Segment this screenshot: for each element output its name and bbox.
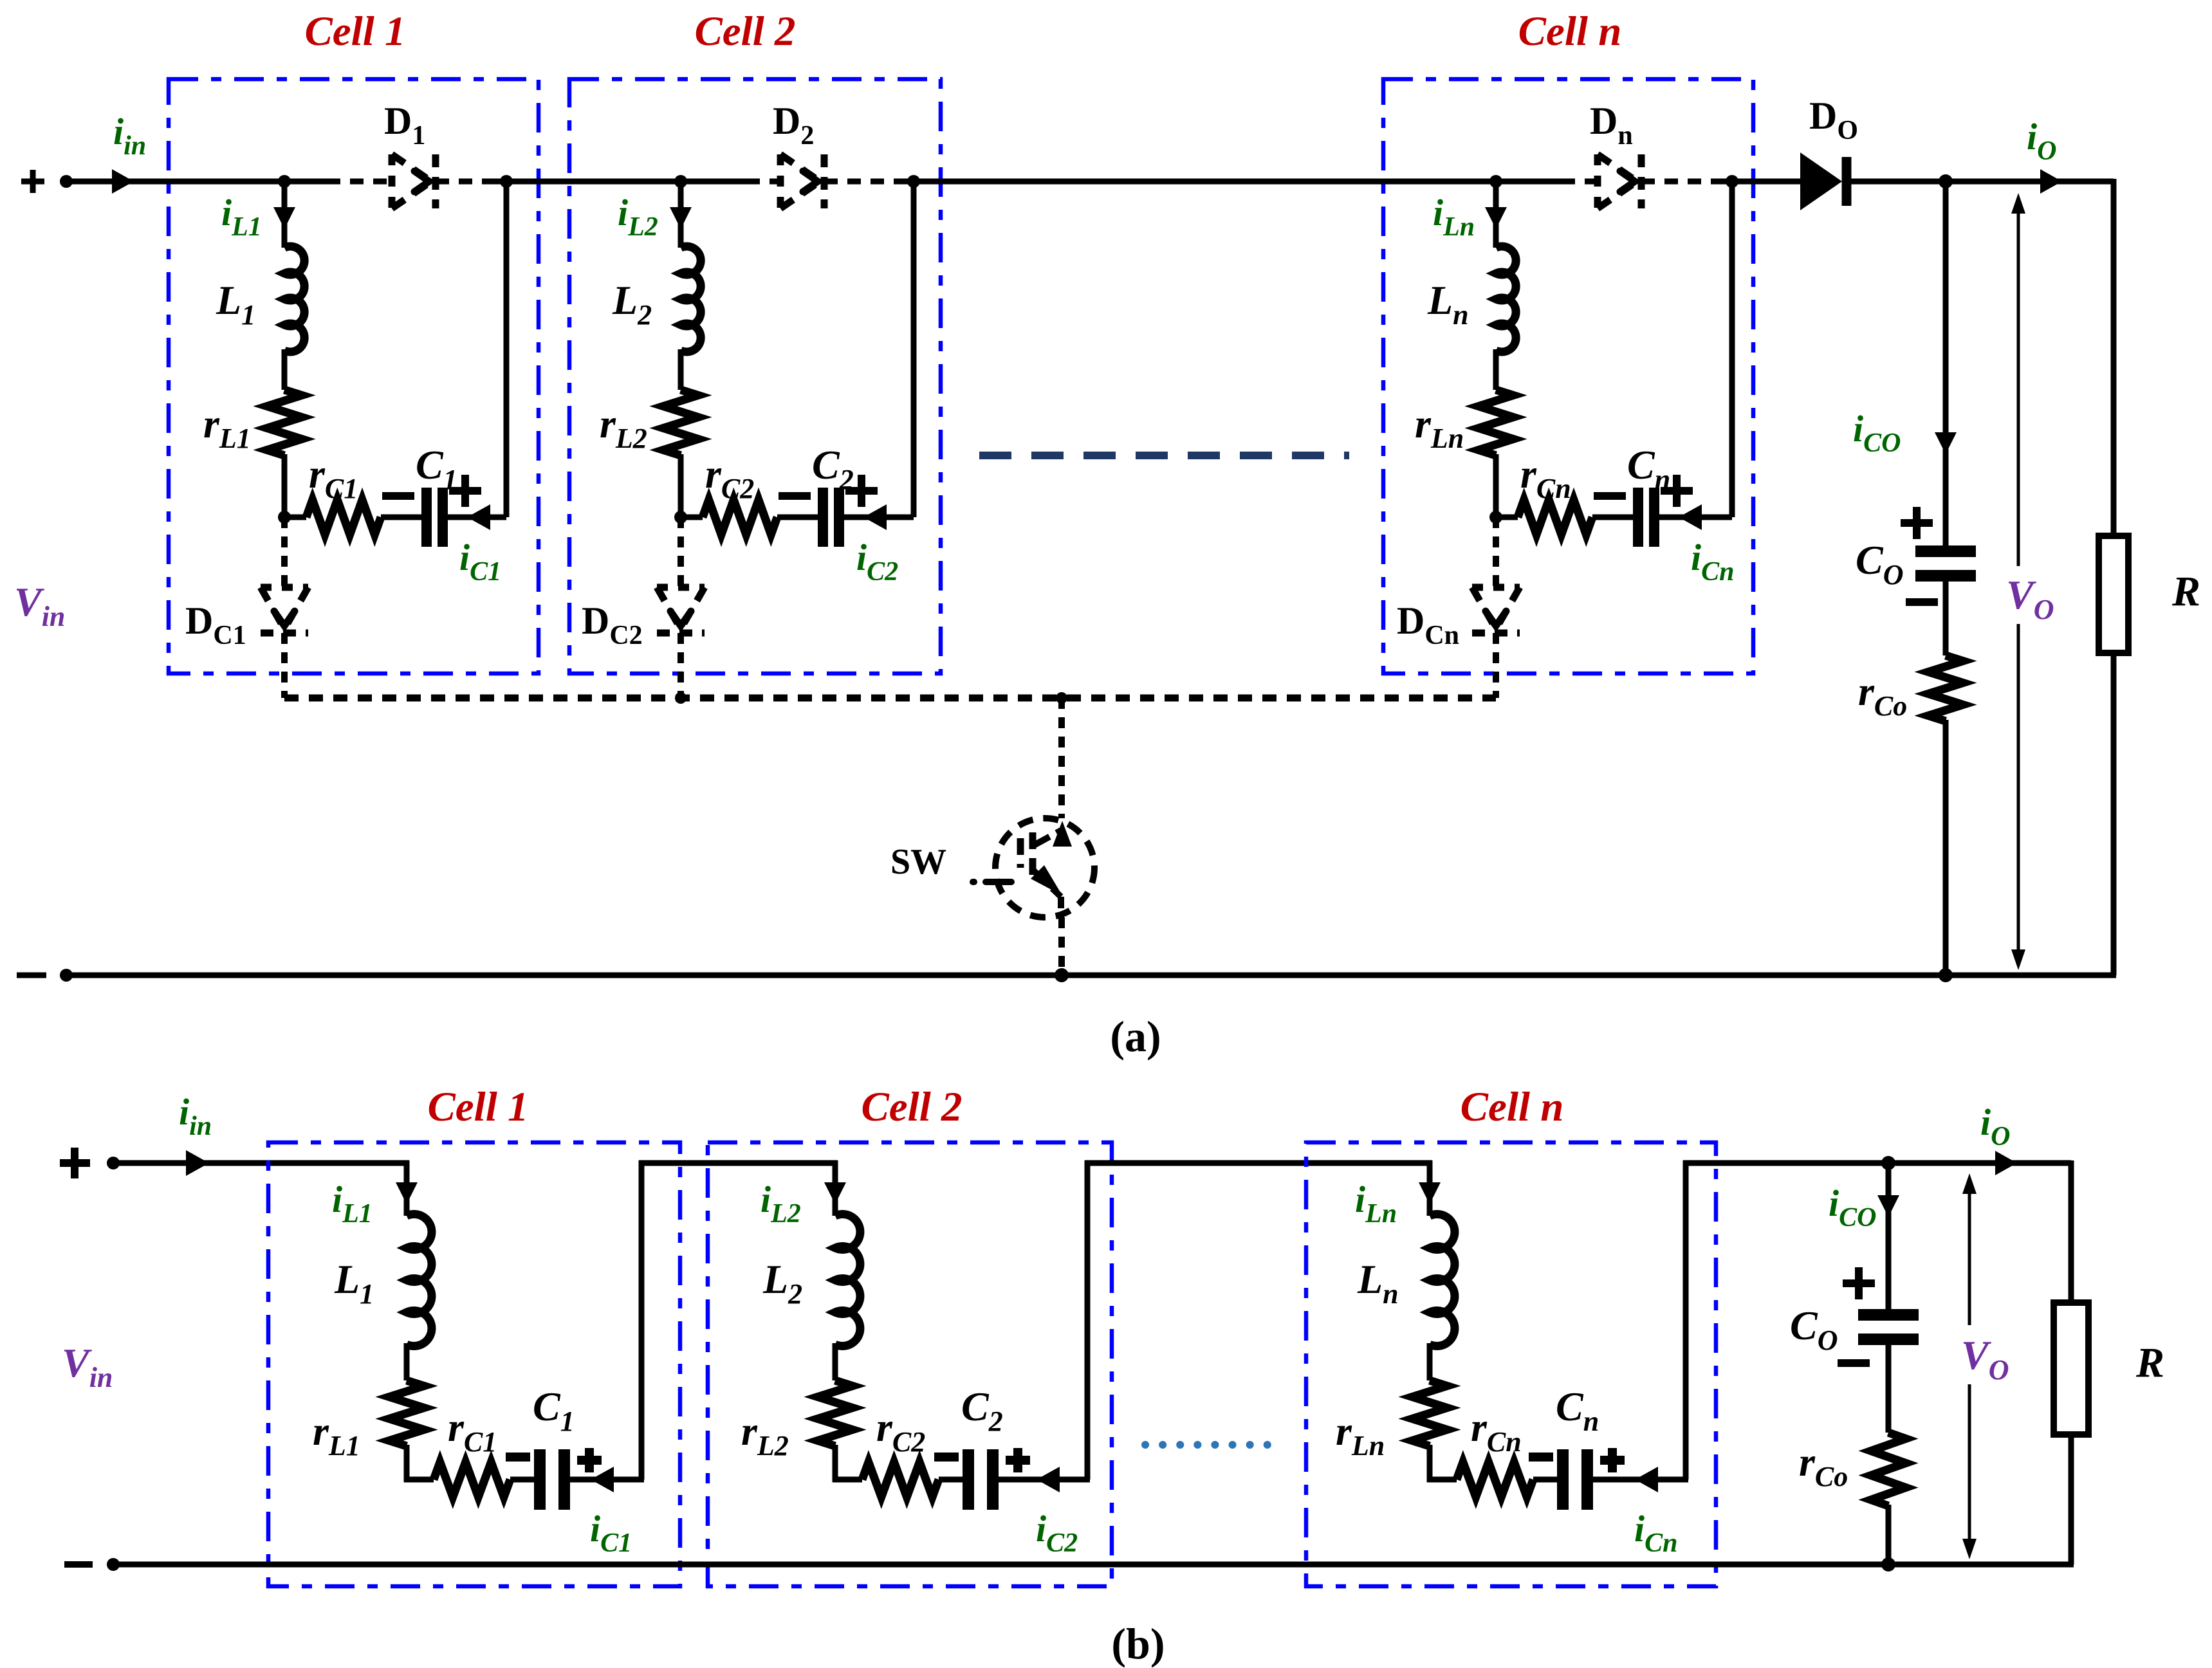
svg-text:(: ( <box>1111 1619 1126 1668</box>
resistor r_L1 <box>267 390 302 455</box>
label plus at Cn (b) <box>1600 1448 1625 1472</box>
wire: r_Ln down to branch corner (b) <box>1427 1445 1433 1482</box>
wire top rail segment: cell1 node to D2 dashes (a) <box>506 179 759 185</box>
label Ln <box>1427 277 1469 331</box>
wire: r_L2 down to branch corner (b) <box>833 1445 838 1482</box>
label D_Cn <box>1397 600 1459 650</box>
label D_O <box>1809 95 1858 145</box>
wire: r_C1 to capacitor C1 <box>381 515 421 520</box>
label i_C1 (b) <box>590 1508 632 1558</box>
wire: top corner down into inductor L1 (b) <box>396 1160 418 1216</box>
wire: right vertical of cell 2 up to top rail (b) <box>1085 1160 1091 1480</box>
svg-text:a): a) <box>1125 1012 1161 1061</box>
wire dashed: bus down to switch SW (a) <box>1058 698 1065 818</box>
label C_O (a) <box>1856 537 1903 591</box>
resistor r_C2 (b) <box>862 1462 939 1497</box>
dashed switch bus wire (a) <box>284 695 1496 702</box>
label V_O (a) <box>2006 572 2054 625</box>
svg-text:Cell n: Cell n <box>1518 8 1622 55</box>
capacitor Co (a) <box>1915 551 1976 576</box>
label i_L2 <box>618 192 658 242</box>
inductor L2 <box>681 246 701 352</box>
current arrow i_O (a) <box>2040 169 2062 194</box>
wire top rail segment 3 (b) <box>1085 1160 1432 1166</box>
label r_Co (a) <box>1858 668 1907 722</box>
terminal plus (a) <box>21 170 44 193</box>
wire: output node down to capacitor Co (a) <box>1943 181 1949 545</box>
wire top rail segment 4 (b) <box>1683 1156 2071 1170</box>
cell box Cell 1 (b) <box>268 1142 680 1586</box>
wire: capacitor to right vertical, current arrow i_Cn <box>1659 504 1732 530</box>
label Cell 2 (b) <box>861 1084 962 1130</box>
wire dashed: into diode D1 <box>327 179 392 185</box>
wire: r_Co to bottom rail (a) <box>1939 720 1953 982</box>
label plus at Cn <box>1661 475 1693 507</box>
wire dashed: into diode D2 <box>723 179 780 185</box>
label minus at C1 (b) <box>506 1453 530 1462</box>
capacitor C1 <box>427 488 443 547</box>
label plus at Co (b) <box>1843 1267 1875 1299</box>
svg-text:Cell 2: Cell 2 <box>861 1084 962 1130</box>
cell box Cell n (a) <box>1383 79 1753 674</box>
label plus at C1 <box>449 475 481 507</box>
resistor r_Cn <box>1518 500 1592 535</box>
label L1 <box>216 277 255 331</box>
label C2 (b) <box>961 1384 1003 1437</box>
label r_Ln (b) <box>1336 1408 1385 1462</box>
wire: capacitor to right vertical, arrow i_C2 (b) <box>999 1467 1090 1492</box>
label C1 (b) <box>533 1384 575 1437</box>
label V_O (b) <box>1961 1332 2009 1386</box>
capacitor Co (b) <box>1858 1315 1919 1339</box>
wire: r_C1 to capacitor C1 (b) <box>510 1477 534 1483</box>
wire: branch node to r_C2 <box>681 515 703 520</box>
label r_L1 (b) <box>313 1408 360 1462</box>
label V_in (a) <box>14 579 65 632</box>
label r_L2 <box>600 401 647 454</box>
label i_L2 (b) <box>760 1178 801 1229</box>
wire dashed: into diode Dn <box>1538 179 1598 185</box>
wire dashed: diode D2 to node <box>824 179 914 185</box>
wire dashed: branch node down to diode D_Cn <box>1493 517 1499 587</box>
label D_C2 <box>582 600 643 650</box>
resistor r_Ln <box>1479 390 1513 455</box>
label i_CO (b) <box>1829 1182 1876 1233</box>
label L2 (b) <box>762 1256 802 1310</box>
resistor r_Co (b) <box>1871 1433 1906 1506</box>
current arrow i_CO (a) <box>1935 432 1957 454</box>
wire: top node to inductor L1 <box>273 175 295 248</box>
node bottom input (a) <box>60 969 73 982</box>
wire dashed: switch SW down to bottom rail (a) <box>1055 917 1069 982</box>
label Dn <box>1590 100 1633 151</box>
svg-text:Cell 2: Cell 2 <box>694 8 795 55</box>
resistor r_C1 (b) <box>434 1462 510 1497</box>
current arrow i_O (b) <box>1995 1151 2017 1175</box>
wire: capacitor to right vertical, arrow i_Cn (b) <box>1593 1467 1688 1492</box>
label R (b) <box>2135 1339 2164 1386</box>
diode Dn (dashed) <box>1598 154 1641 208</box>
wire: capacitor to right vertical, arrow i_C1 (b) <box>570 1467 644 1492</box>
resistor r_C2 <box>703 500 777 535</box>
resistor r_L2 (b) <box>818 1380 853 1446</box>
svg-text:Cell n: Cell n <box>1461 1084 1564 1130</box>
wire: r_C2 to capacitor C2 (b) <box>939 1477 963 1483</box>
label i_C2 (b) <box>1036 1508 1078 1558</box>
terminal minus (a) <box>17 973 46 978</box>
label i_O (b) <box>1980 1101 2010 1151</box>
label r_Cn <box>1520 451 1571 504</box>
wire: L1 to r_L1 (b) <box>404 1343 410 1380</box>
wire: r_L1 down to branch corner (b) <box>404 1445 410 1482</box>
resistor r_Cn (b) <box>1457 1462 1533 1497</box>
wire: r_Cn to capacitor Cn (b) <box>1533 1477 1557 1483</box>
wire: top corner down to load R (b) <box>2069 1160 2074 1303</box>
wire dashed: D_C2 to switch bus <box>677 633 684 698</box>
svg-text:Cell 1: Cell 1 <box>427 1084 528 1130</box>
label r_C1 <box>309 451 358 504</box>
current arrow i_in (b) <box>186 1150 209 1176</box>
label i_C1 <box>459 536 501 587</box>
inductor L1 <box>284 246 304 352</box>
wire: Ln to r_Ln (b) <box>1427 1343 1433 1380</box>
label r_Co (b) <box>1799 1439 1848 1492</box>
wire top rail segment: cell n node to diode Do (a) <box>1732 179 1800 185</box>
wire: right vertical of cell n up to top rail (b) <box>1683 1160 1689 1480</box>
wire: Co to r_Co (a) <box>1943 576 1949 655</box>
resistor r_L1 (b) <box>389 1380 424 1446</box>
label i_Cn (b) <box>1634 1508 1678 1558</box>
wire: branch corner to r_C1 (b) <box>404 1477 434 1483</box>
inductor L2 (b) <box>835 1214 860 1346</box>
wire: top corner down to load R (a) <box>2111 179 2117 536</box>
label i_C2 <box>856 536 898 587</box>
wire dashed: diode D1 to node <box>436 179 506 185</box>
label plus at C2 <box>845 475 878 507</box>
label D_C1 <box>185 600 246 650</box>
wire top rail segment 1 (b) <box>111 1160 409 1166</box>
wire: L2 to r_L2 <box>678 349 684 390</box>
wire: top node to inductor Ln <box>1485 175 1507 248</box>
label C_O (b) <box>1790 1303 1838 1356</box>
wire dashed: branch node down to diode D_C2 <box>677 517 684 587</box>
label r_L2 (b) <box>741 1408 789 1462</box>
label r_Cn (b) <box>1471 1404 1522 1458</box>
svg-text:SW: SW <box>890 842 946 882</box>
terminal minus (b) <box>64 1561 93 1568</box>
capacitor Cn (b) <box>1563 1449 1587 1510</box>
resistor r_L2 <box>663 390 698 455</box>
label minus at C2 (b) <box>934 1453 959 1462</box>
resistor r_Co (a) <box>1928 655 1963 721</box>
label plus at C2 (b) <box>1006 1448 1030 1472</box>
load resistor R (a) <box>2099 536 2128 653</box>
label minus at Co (a) <box>1906 598 1938 606</box>
cell box Cell 2 (a) <box>569 79 941 674</box>
wire: output node down to Co (b) <box>1886 1163 1892 1309</box>
wire: load R down to bottom rail corner (a) <box>2111 653 2117 975</box>
wire: top corner down into inductor Ln (b) <box>1419 1160 1441 1216</box>
voltage arrow V_O (a) <box>1993 193 2064 970</box>
diode D2 (dashed) <box>780 154 824 208</box>
wire: Ln to r_Ln <box>1493 349 1499 390</box>
label (a) <box>1110 1012 1161 1061</box>
label Cell 1 <box>304 8 405 55</box>
wire: right vertical of cell 1 up to top rail (b) <box>639 1160 645 1480</box>
wire: capacitor to right vertical, current arrow i_C2 <box>844 504 914 530</box>
label L1 (b) <box>334 1256 374 1310</box>
label plus at Co (a) <box>1901 507 1933 539</box>
wire: top corner down into inductor L2 (b) <box>824 1160 846 1216</box>
label minus at Cn <box>1594 492 1626 500</box>
capacitor C2 <box>823 488 839 547</box>
capacitor Cn <box>1638 488 1654 547</box>
wire dashed: diode Dn to node <box>1641 179 1732 185</box>
voltage arrow V_O (b) <box>1948 1173 2020 1559</box>
wire: branch node to r_Cn <box>1496 515 1518 520</box>
wire: top node to inductor L2 <box>670 175 692 248</box>
label minus at C2 <box>779 492 811 500</box>
label minus at C1 <box>382 492 414 500</box>
label minus at Cn (b) <box>1529 1453 1553 1462</box>
label Cell n <box>1518 8 1622 55</box>
label Cell n (b) <box>1461 1084 1564 1130</box>
wire top rail segment: cell2 node to Dn dashes (a) <box>914 179 1562 185</box>
label i_L1 (b) <box>332 1178 373 1229</box>
wire dashed: D_Cn to switch bus <box>1493 633 1499 698</box>
terminal plus (b) <box>60 1148 90 1178</box>
cell box Cell 1 (a) <box>169 79 539 674</box>
inductor Ln (b) <box>1430 1214 1455 1346</box>
label V_in (b) <box>62 1340 113 1393</box>
wire: branch node to r_C1 <box>284 515 306 520</box>
label i_in (b) <box>179 1091 212 1141</box>
label i_CO (a) <box>1853 408 1901 458</box>
label (b) <box>1111 1619 1165 1668</box>
wire: L1 to r_L1 <box>282 349 288 390</box>
wire: right vertical of cell 2 <box>907 175 920 517</box>
wire: branch corner to r_Cn (b) <box>1427 1477 1457 1483</box>
wire: r_Cn to capacitor Cn <box>1592 515 1633 520</box>
wire top rail segment 2 (b) <box>639 1160 838 1166</box>
capacitor C2 (b) <box>968 1449 993 1510</box>
capacitor C1 (b) <box>540 1449 564 1510</box>
wire dashed: D_C1 to switch bus <box>281 633 288 698</box>
label r_C1 (b) <box>448 1404 497 1458</box>
label Cn <box>1627 442 1670 495</box>
transistor switch SW (dashed circle MOSFET) <box>973 818 1094 917</box>
node bus to switch SW (a) <box>1056 692 1067 704</box>
diode Do (solid) <box>1800 152 1847 210</box>
wire bottom rail (b) <box>111 1562 2074 1568</box>
wire: Co to r_Co (b) <box>1886 1339 1892 1433</box>
label C2 <box>812 442 854 495</box>
label i_Ln <box>1433 192 1475 242</box>
label i_Cn <box>1691 536 1735 587</box>
label plus at C1 (b) <box>577 1448 602 1472</box>
wire: r_L1 to branch node <box>278 454 291 524</box>
wire: r_C2 to capacitor C2 <box>777 515 818 520</box>
label Cell 2 <box>694 8 795 55</box>
wire top rail segment: input to D1 dashes (a) <box>63 179 328 185</box>
label r_C2 <box>705 451 754 504</box>
label Cell 1 (b) <box>427 1084 528 1130</box>
label Cn (b) <box>1556 1384 1599 1437</box>
wire: r_Co to bottom rail (b) <box>1881 1505 1895 1572</box>
dashed continuation line between Cell 2 and Cell n (a) <box>979 452 1349 459</box>
resistor r_Ln (b) <box>1412 1380 1447 1446</box>
resistor r_C1 <box>306 500 381 535</box>
label i_O (a) <box>2027 116 2056 166</box>
inductor Ln <box>1496 246 1516 352</box>
label r_Ln <box>1415 401 1464 454</box>
svg-text:R: R <box>2171 568 2200 615</box>
label C1 <box>416 442 457 495</box>
node input (b) <box>107 1157 120 1169</box>
label i_L1 <box>221 192 262 242</box>
diode D_C2 (dashed, pointing down) <box>657 587 705 633</box>
svg-text:Cell 1: Cell 1 <box>304 8 405 55</box>
label R (a) <box>2171 568 2200 615</box>
wire: load R down to bottom rail corner (b) <box>2069 1434 2074 1564</box>
current arrow i_in (a) <box>112 169 134 194</box>
svg-text:b): b) <box>1126 1619 1165 1668</box>
diode D1 (dashed) <box>392 154 436 208</box>
inductor L1 (b) <box>407 1214 432 1346</box>
wire: Do to output node to top right corner (a) <box>1847 174 2114 188</box>
current arrow i_CO (b) <box>1877 1195 1899 1217</box>
wire: branch corner to r_C2 (b) <box>833 1477 862 1483</box>
wire: right vertical of cell n <box>1726 175 1738 517</box>
node input (a) <box>60 175 73 188</box>
label i_Ln (b) <box>1355 1178 1397 1229</box>
wire: r_L2 to branch node <box>674 454 687 524</box>
wire dashed: branch node down to diode D_C1 <box>281 517 288 587</box>
diode D_C1 (dashed, pointing down) <box>261 587 308 633</box>
svg-text:(: ( <box>1110 1012 1125 1061</box>
cell box Cell n (b) <box>1306 1142 1716 1586</box>
label r_C2 (b) <box>876 1404 925 1458</box>
label L2 <box>612 277 652 331</box>
label D2 <box>773 100 814 151</box>
wire: L2 to r_L2 (b) <box>833 1343 838 1380</box>
label D1 <box>384 100 425 151</box>
svg-text:R: R <box>2135 1339 2164 1386</box>
node bus junction at D_C2 (a) <box>675 692 687 704</box>
diode D_Cn (dashed, pointing down) <box>1472 587 1520 633</box>
cell box Cell 2 (b) <box>708 1142 1112 1586</box>
wire: r_Ln to branch node <box>1489 454 1502 524</box>
label i_in (a) <box>113 111 146 161</box>
node bottom input (b) <box>107 1558 120 1571</box>
label Ln (b) <box>1357 1256 1399 1310</box>
wire: right vertical of cell 1 <box>500 175 513 517</box>
label minus at Co (b) <box>1838 1359 1870 1367</box>
label r_L1 <box>203 401 251 454</box>
label SW <box>890 842 946 882</box>
load resistor R (b) <box>2054 1303 2088 1434</box>
wire: capacitor to right vertical, current arrow i_C1 <box>448 504 506 530</box>
dotted continuation line between Cell 2 and Cell n (b) <box>1145 1441 1277 1449</box>
wire bottom rail (a) <box>63 973 2116 978</box>
